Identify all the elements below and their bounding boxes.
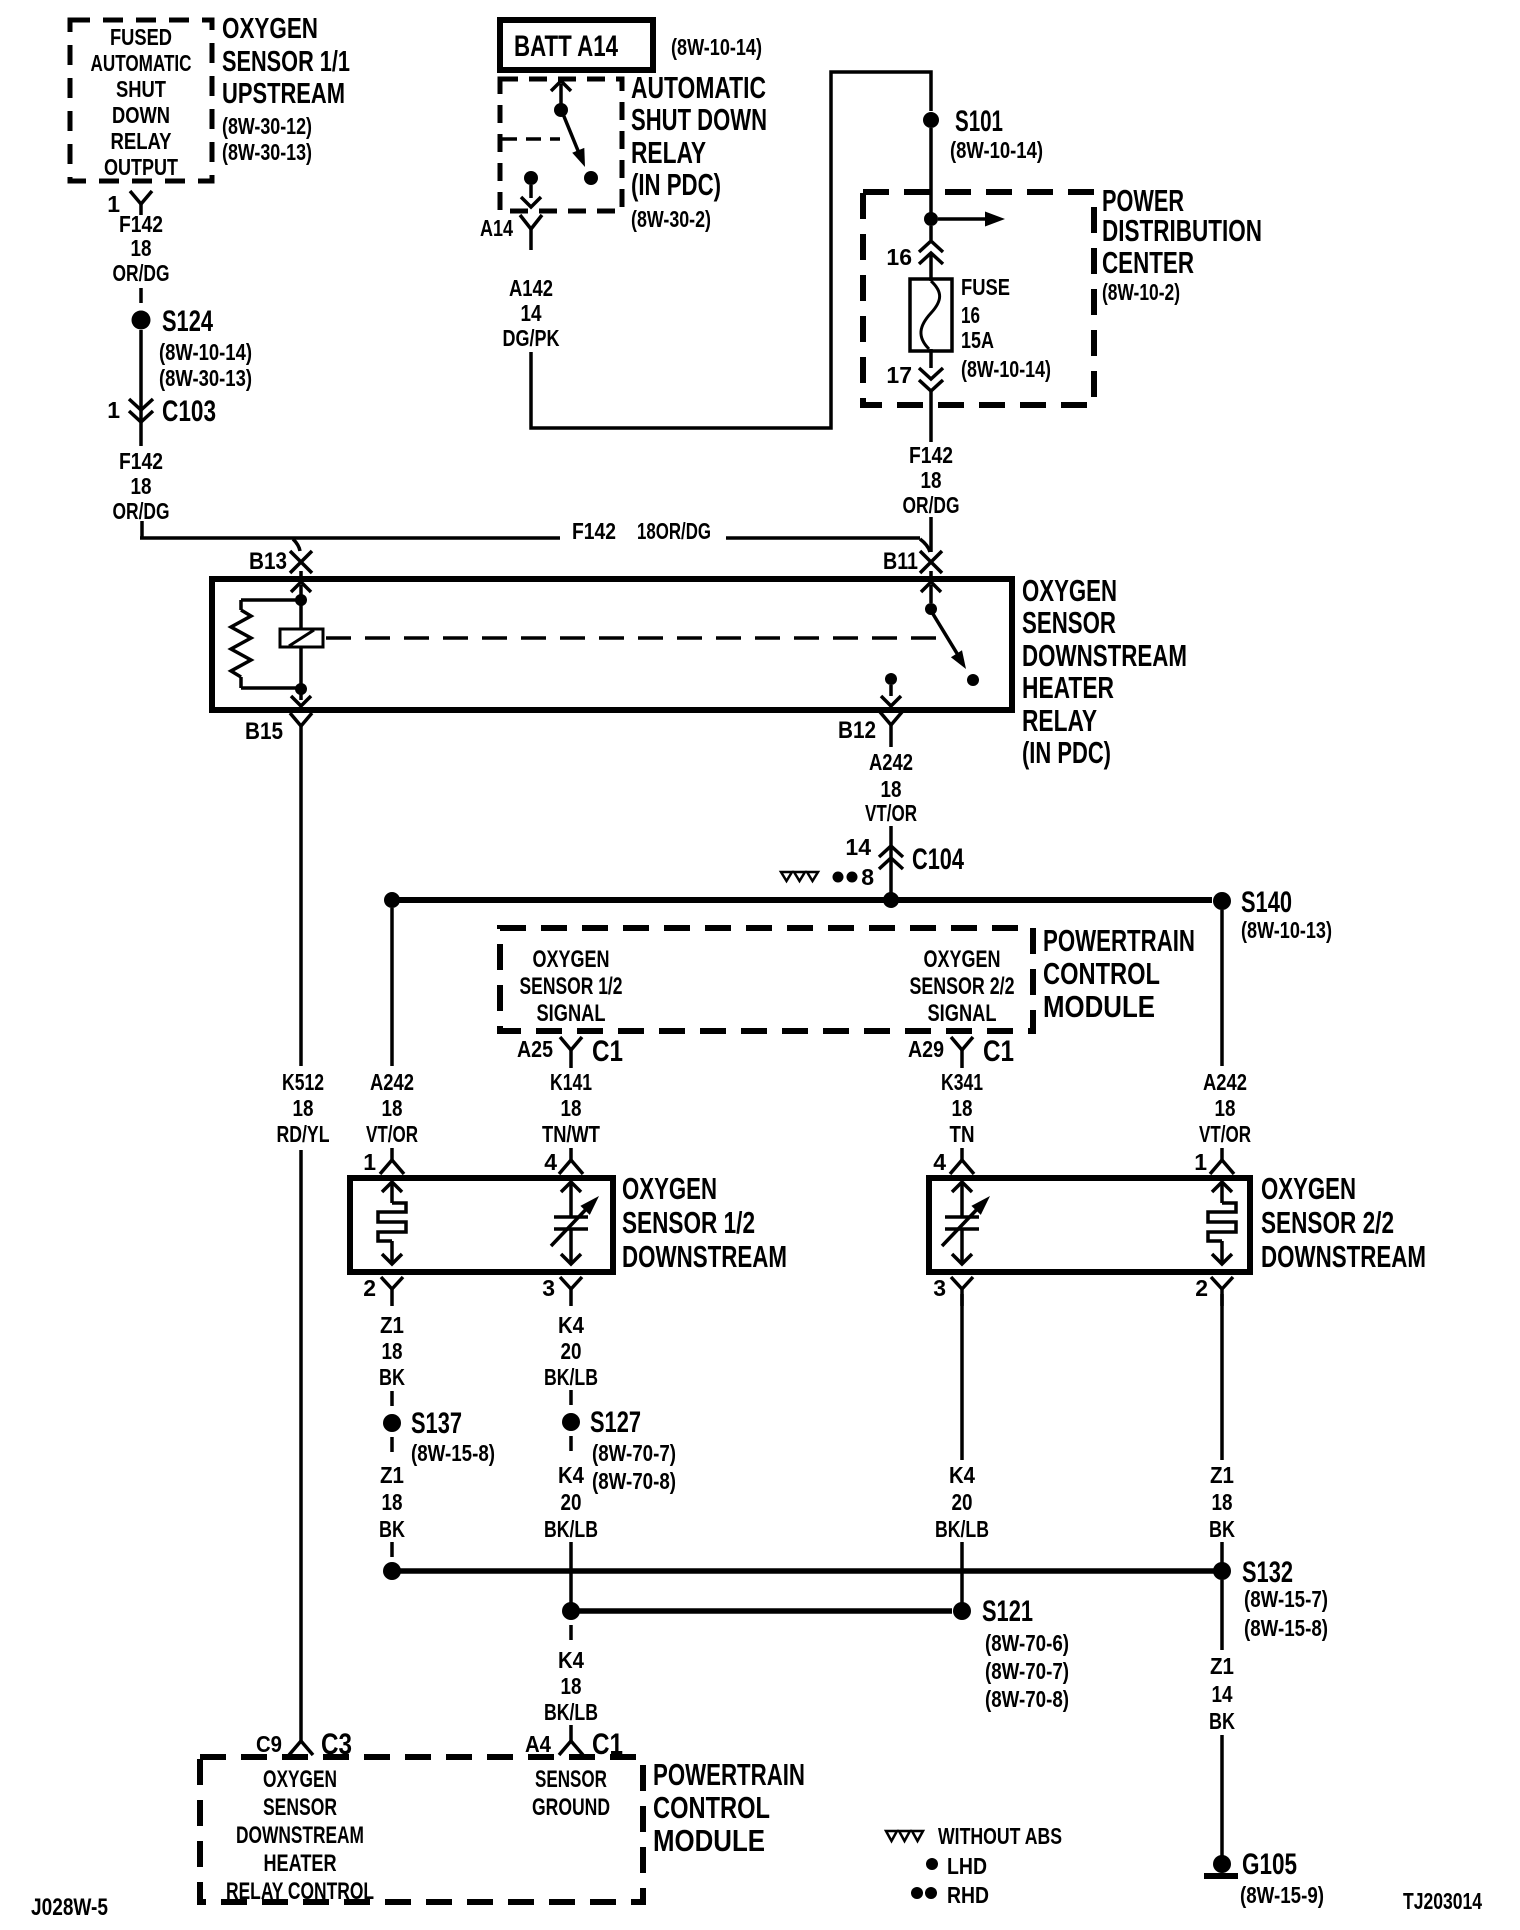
svg-text:(8W-15-7): (8W-15-7)	[1244, 1586, 1328, 1612]
svg-text:HEATER: HEATER	[264, 1850, 337, 1877]
svg-text:(IN PDC): (IN PDC)	[1022, 735, 1111, 770]
label powertrain control module (upper)	[1043, 923, 1195, 1024]
connector pin 1 into O2S 1/2	[363, 1148, 404, 1175]
bus wire S137-S132	[392, 1568, 1214, 1574]
bus wire (main splice bus)	[392, 897, 1212, 903]
wire dashed below bus2	[569, 1625, 573, 1640]
label wire Z1 18 BK (above S137)	[379, 1312, 405, 1390]
svg-text:C103: C103	[162, 395, 216, 428]
svg-text:20: 20	[952, 1489, 973, 1515]
bus junction dot left	[384, 892, 400, 908]
label wire Z1 18 BK (right)	[1209, 1462, 1235, 1542]
svg-text:A242: A242	[869, 749, 913, 775]
bus1 left terminus dot	[383, 1562, 401, 1580]
svg-text:AUTOMATIC: AUTOMATIC	[631, 70, 766, 105]
svg-text:16: 16	[961, 302, 980, 328]
svg-text:S140: S140	[1241, 886, 1292, 919]
svg-text:OR/DG: OR/DG	[113, 260, 170, 286]
svg-text:(8W-30-2): (8W-30-2)	[631, 206, 711, 232]
svg-text:BK: BK	[379, 1364, 405, 1390]
svg-text:K341: K341	[941, 1069, 983, 1095]
svg-text:(IN PDC): (IN PDC)	[631, 167, 721, 202]
svg-text:2: 2	[363, 1275, 376, 1301]
svg-text:TN/WT: TN/WT	[542, 1121, 600, 1147]
wire F142 corner to horizontal run	[140, 521, 920, 538]
relay switch pivot dot	[925, 603, 937, 615]
connector pin 3 below O2S 1/2	[542, 1275, 582, 1306]
svg-text:BK/LB: BK/LB	[544, 1364, 598, 1390]
connector B15	[245, 713, 312, 746]
relay coil pin B15 exit arrow	[291, 693, 311, 706]
svg-text:(8W-70-6): (8W-70-6)	[985, 1630, 1069, 1656]
label wire Z1 18 BK (below S137)	[379, 1462, 405, 1542]
svg-text:(8W-70-7): (8W-70-7)	[985, 1658, 1069, 1684]
relay coil bottom dot	[295, 683, 307, 695]
svg-text:RD/YL: RD/YL	[277, 1121, 330, 1147]
svg-text:MODULE: MODULE	[653, 1823, 765, 1858]
bus junction dot center (C104)	[883, 892, 899, 908]
svg-text:17: 17	[886, 362, 912, 388]
svg-text:18: 18	[1212, 1489, 1233, 1515]
label wire K4 20 BK/LB (right)	[935, 1462, 989, 1542]
svg-text:UPSTREAM: UPSTREAM	[222, 78, 345, 110]
splice S121	[953, 1595, 1069, 1712]
label wire A242 18 VT/OR (right)	[1199, 1069, 1251, 1147]
svg-text:K512: K512	[282, 1069, 324, 1095]
svg-text:C1: C1	[592, 1035, 623, 1068]
splice S132	[1213, 1556, 1328, 1641]
wire K4 through bus1 to bus2	[569, 1542, 573, 1604]
svg-text:(8W-30-13): (8W-30-13)	[159, 365, 252, 391]
ASD relay output pin dot	[524, 171, 538, 185]
svg-text:WITHOUT ABS: WITHOUT ABS	[938, 1823, 1062, 1849]
label oxygen sensor 2/2 downstream	[1261, 1171, 1426, 1274]
component box oxygen sensor 1/2 downstream	[350, 1178, 613, 1272]
splice S124	[132, 305, 253, 391]
svg-text:OR/DG: OR/DG	[113, 498, 170, 524]
legend LHD	[926, 1853, 987, 1879]
label wire K4 20 BK/LB (above S127)	[544, 1312, 598, 1390]
label wire A142 14 DG/PK	[503, 275, 560, 351]
svg-text:LHD: LHD	[947, 1853, 987, 1879]
svg-text:15A: 15A	[961, 327, 994, 353]
relay switch pin B12 exit arrow	[881, 685, 901, 706]
svg-text:A4: A4	[525, 1731, 551, 1757]
svg-text:B13: B13	[249, 548, 287, 575]
svg-text:18: 18	[293, 1095, 314, 1121]
svg-text:(8W-70-8): (8W-70-8)	[985, 1686, 1069, 1712]
svg-text:SENSOR 1/2: SENSOR 1/2	[520, 973, 623, 1000]
legend without ABS	[886, 1823, 1062, 1849]
svg-text:C1: C1	[983, 1035, 1014, 1068]
svg-text:DOWNSTREAM: DOWNSTREAM	[236, 1822, 364, 1849]
label powertrain control module (lower)	[653, 1757, 805, 1858]
svg-text:20: 20	[561, 1338, 582, 1364]
connector A14 (Y)	[480, 215, 542, 250]
svg-text:S137: S137	[411, 1407, 462, 1440]
marker without-ABS triangles at C104	[781, 872, 818, 881]
label oxygen sensor 1/2 signal	[520, 946, 623, 1027]
svg-text:(8W-70-7): (8W-70-7)	[592, 1440, 676, 1466]
sensor element O2S 1/2 (pin4-pin3)	[551, 1182, 599, 1264]
relay switch output dot B12	[885, 673, 897, 685]
svg-text:B15: B15	[245, 718, 283, 745]
svg-text:16: 16	[886, 244, 912, 270]
relay switch arm	[933, 614, 966, 669]
label wire K4 18 BK/LB (to PCM)	[544, 1647, 598, 1725]
ASD relay output contact dot	[584, 171, 598, 185]
wire dashed into bus1	[390, 1542, 394, 1557]
relay coil pin B13 entry arrow	[291, 571, 311, 600]
wire dashed above S127	[569, 1390, 573, 1405]
svg-text:B11: B11	[883, 548, 918, 575]
svg-text:18: 18	[382, 1095, 403, 1121]
svg-text:BATT A14: BATT A14	[514, 30, 618, 63]
wire K512 from B15 to C9	[299, 746, 303, 1729]
PDC junction dot with feed arrow	[924, 212, 1005, 227]
label oxygen sensor 2/2 signal	[910, 946, 1015, 1027]
svg-text:18: 18	[921, 467, 942, 493]
ASD relay common dot	[554, 103, 568, 117]
label wire K4 20 BK/LB (below S127)	[544, 1462, 598, 1542]
svg-text:A142: A142	[509, 275, 553, 301]
svg-text:20: 20	[561, 1489, 582, 1515]
svg-text:4: 4	[933, 1149, 946, 1175]
svg-text:OXYGEN: OXYGEN	[263, 1766, 337, 1793]
label wire K341 18 TN	[941, 1069, 983, 1147]
svg-text:RHD: RHD	[947, 1882, 989, 1908]
module powertrain control module box (dashed, lower)	[200, 1757, 643, 1902]
svg-text:(8W-30-13): (8W-30-13)	[222, 139, 312, 165]
splice S101	[923, 105, 1043, 163]
svg-text:DOWNSTREAM: DOWNSTREAM	[1022, 638, 1187, 673]
svg-text:J028W-5: J028W-5	[31, 1894, 108, 1921]
svg-text:BK/LB: BK/LB	[544, 1516, 598, 1542]
label wire K141 18 TN/WT	[542, 1069, 600, 1147]
svg-text:MODULE: MODULE	[1043, 989, 1155, 1024]
svg-text:CONTROL: CONTROL	[653, 1790, 770, 1825]
wire K4 right into S121	[960, 1542, 964, 1604]
resistor bottom connection	[241, 677, 301, 688]
connector B11	[883, 548, 942, 575]
relay coil element	[280, 600, 323, 688]
module powertrain control module box (dashed, upper)	[500, 928, 1033, 1031]
bus wire S127-S121	[571, 1608, 952, 1614]
svg-text:G105: G105	[1242, 1848, 1297, 1881]
label wire A242 18 VT/OR (left)	[366, 1069, 418, 1147]
svg-text:VT/OR: VT/OR	[366, 1121, 418, 1147]
svg-text:14: 14	[1212, 1681, 1233, 1707]
label wire F142 18 OR/DG under PDC	[903, 442, 960, 518]
svg-text:(8W-10-14): (8W-10-14)	[159, 339, 252, 365]
svg-text:RELAY: RELAY	[631, 135, 706, 170]
svg-text:OXYGEN: OXYGEN	[622, 1171, 717, 1206]
svg-text:18: 18	[131, 235, 152, 261]
svg-text:SENSOR 1/2: SENSOR 1/2	[622, 1205, 755, 1240]
connector pin 2 below O2S 1/2	[363, 1275, 403, 1306]
svg-text:F142: F142	[572, 518, 616, 544]
svg-text:BK/LB: BK/LB	[544, 1699, 598, 1725]
svg-text:SENSOR 2/2: SENSOR 2/2	[910, 973, 1015, 1000]
svg-text:DOWNSTREAM: DOWNSTREAM	[622, 1239, 787, 1274]
svg-text:C9: C9	[256, 1731, 282, 1757]
wire A242 into C104	[889, 826, 893, 897]
label oxygen sensor 1/2 downstream	[622, 1171, 787, 1274]
marker RHD dots and 8 at C104	[833, 864, 875, 890]
svg-text:14: 14	[845, 834, 871, 860]
svg-text:18: 18	[881, 776, 902, 802]
connector C104	[845, 834, 964, 876]
splice S140	[1213, 886, 1332, 943]
wire K141 from A25 to O2S 1/2 pin 4	[569, 1066, 573, 1068]
svg-text:C104: C104	[912, 843, 964, 876]
svg-text:K141: K141	[550, 1069, 592, 1095]
svg-text:OXYGEN: OXYGEN	[1022, 573, 1117, 608]
svg-text:A25: A25	[517, 1036, 553, 1062]
connector C103 (1)	[107, 395, 216, 446]
svg-text:BK: BK	[1209, 1516, 1235, 1542]
svg-text:RELAY CONTROL: RELAY CONTROL	[226, 1878, 374, 1905]
svg-text:OUTPUT: OUTPUT	[104, 154, 178, 180]
svg-text:SIGNAL: SIGNAL	[537, 1000, 606, 1027]
relay switch pin B11 entry arrow	[921, 571, 941, 603]
wire K4 into A4	[569, 1725, 573, 1729]
svg-text:Z1: Z1	[380, 1462, 404, 1488]
svg-text:(8W-15-8): (8W-15-8)	[411, 1440, 495, 1466]
svg-text:OXYGEN: OXYGEN	[924, 946, 1001, 973]
svg-text:CONTROL: CONTROL	[1043, 956, 1160, 991]
PDC pin 17 connector	[886, 349, 943, 442]
connector pin 3 below O2S 2/2	[933, 1275, 973, 1306]
svg-text:SIGNAL: SIGNAL	[928, 1000, 997, 1027]
svg-text:S101: S101	[955, 105, 1003, 138]
svg-text:B12: B12	[838, 717, 876, 744]
svg-text:S124: S124	[162, 305, 213, 338]
svg-text:18: 18	[561, 1095, 582, 1121]
svg-text:OXYGEN: OXYGEN	[1261, 1171, 1356, 1206]
splice S137	[383, 1407, 495, 1466]
box fused automatic shut down relay output (dashed)	[70, 20, 212, 181]
svg-text:4: 4	[544, 1149, 557, 1175]
svg-text:2: 2	[1195, 1275, 1208, 1301]
svg-text:18: 18	[952, 1095, 973, 1121]
svg-text:HEATER: HEATER	[1022, 670, 1114, 705]
svg-text:K4: K4	[558, 1647, 584, 1673]
wire Z1 pin2 down	[1220, 1294, 1224, 1460]
connector pin 1 (Y) below ASD output box	[107, 191, 152, 217]
svg-text:S132: S132	[1242, 1556, 1293, 1589]
svg-text:POWERTRAIN: POWERTRAIN	[653, 1757, 805, 1792]
svg-text:SHUT: SHUT	[116, 76, 166, 102]
svg-text:8: 8	[861, 864, 874, 890]
svg-text:VT/OR: VT/OR	[865, 800, 917, 826]
svg-text:3: 3	[933, 1275, 946, 1301]
svg-text:Z1: Z1	[380, 1312, 404, 1338]
svg-text:S121: S121	[982, 1595, 1033, 1628]
wire dashed below S127	[569, 1436, 573, 1451]
svg-text:SHUT DOWN: SHUT DOWN	[631, 102, 767, 137]
ground G105	[1204, 1848, 1324, 1908]
svg-text:K4: K4	[558, 1462, 584, 1488]
PDC pin 16 connector	[886, 226, 943, 281]
relay box oxygen sensor downstream heater relay	[212, 579, 1012, 710]
svg-text:BK/LB: BK/LB	[935, 1516, 989, 1542]
svg-text:FUSED: FUSED	[110, 24, 172, 50]
svg-text:F142: F142	[909, 442, 953, 468]
svg-text:TN: TN	[950, 1121, 975, 1147]
component box oxygen sensor 2/2 downstream	[929, 1178, 1250, 1272]
svg-text:(8W-15-8): (8W-15-8)	[1244, 1615, 1328, 1641]
heater element O2S 1/2 (pin1-pin2)	[378, 1182, 406, 1264]
svg-text:Z1: Z1	[1210, 1653, 1234, 1679]
wire S101 into PDC	[929, 128, 933, 213]
label oxygen sensor downstream heater relay control	[226, 1766, 374, 1905]
svg-text:18: 18	[382, 1338, 403, 1364]
svg-text:OXYGEN: OXYGEN	[222, 13, 318, 45]
svg-text:F142: F142	[119, 211, 163, 237]
svg-text:TJ203014: TJ203014	[1403, 1888, 1482, 1914]
wire K341 pin3 down	[960, 1294, 964, 1460]
svg-text:SENSOR: SENSOR	[1022, 605, 1116, 640]
connector pin 1 into O2S 2/2	[1194, 1148, 1234, 1175]
ASD relay coil dashed stub	[502, 137, 560, 141]
ASD relay upper contact arrow	[551, 81, 571, 104]
svg-text:SENSOR 1/1: SENSOR 1/1	[222, 46, 350, 78]
fuse 16 15A	[910, 279, 952, 351]
label wire A242 18 VT/OR (below B12)	[865, 749, 917, 826]
label fuse 16 15A	[961, 274, 1051, 382]
legend RHD	[911, 1882, 989, 1908]
svg-text:RELAY: RELAY	[1022, 703, 1097, 738]
svg-text:(8W-10-13): (8W-10-13)	[1241, 917, 1332, 943]
wire dashed above S137	[390, 1391, 394, 1406]
power distribution center box (dashed)	[863, 192, 1094, 405]
svg-text:A242: A242	[1203, 1069, 1247, 1095]
svg-text:(8W-10-14): (8W-10-14)	[671, 34, 762, 60]
ASD relay output pin arrow	[521, 185, 541, 207]
svg-text:SENSOR 2/2: SENSOR 2/2	[1261, 1205, 1394, 1240]
resistor (relay coil suppression)	[231, 610, 251, 677]
svg-text:18: 18	[131, 473, 152, 499]
wire Z1 from S132 to G105	[1220, 1580, 1224, 1856]
svg-text:18OR/DG: 18OR/DG	[637, 518, 711, 544]
svg-text:(8W-15-9): (8W-15-9)	[1240, 1882, 1324, 1908]
svg-text:OR/DG: OR/DG	[903, 492, 960, 518]
wire A242 from S140 to O2S 2/2 pin 1	[1220, 910, 1224, 1066]
relay ASD box (dashed, in PDC)	[500, 79, 622, 211]
svg-text:AUTOMATIC: AUTOMATIC	[91, 50, 192, 76]
svg-text:BK: BK	[379, 1516, 405, 1542]
label wire Z1 14 BK (to ground)	[1209, 1653, 1235, 1734]
connector A25 C1	[517, 1035, 623, 1068]
svg-text:1: 1	[363, 1149, 376, 1175]
svg-text:DISTRIBUTION: DISTRIBUTION	[1102, 213, 1262, 248]
svg-text:DG/PK: DG/PK	[503, 325, 560, 351]
svg-text:VT/OR: VT/OR	[1199, 1121, 1251, 1147]
relay switch contact dot	[967, 674, 979, 686]
svg-text:FUSE: FUSE	[961, 274, 1010, 300]
connector C9 C3	[256, 1728, 352, 1761]
svg-text:CENTER: CENTER	[1102, 245, 1194, 280]
sheet number TJ203014	[1403, 1888, 1482, 1914]
heater element O2S 2/2 (pin1-pin2)	[1208, 1182, 1236, 1264]
svg-text:(8W-10-2): (8W-10-2)	[1102, 279, 1180, 305]
svg-text:A14: A14	[480, 215, 513, 241]
svg-text:18: 18	[382, 1489, 403, 1515]
label oxygen sensor 1/1 upstream	[222, 13, 350, 165]
connector A29 C1	[908, 1035, 1014, 1068]
wire S124 to C103	[139, 330, 143, 398]
svg-text:3: 3	[542, 1275, 555, 1301]
ASD relay switch arm	[563, 114, 585, 167]
svg-text:A29: A29	[908, 1036, 944, 1062]
connector A4 C1	[525, 1728, 623, 1761]
label automatic shut down relay	[631, 70, 767, 232]
svg-text:F142: F142	[119, 448, 163, 474]
svg-text:(8W-70-8): (8W-70-8)	[592, 1468, 676, 1494]
wire dashed segment above S124	[139, 288, 143, 303]
svg-text:S127: S127	[590, 1406, 641, 1439]
svg-text:1: 1	[107, 397, 120, 423]
sensor element O2S 2/2 (pin4-pin3)	[942, 1182, 990, 1264]
wire dashed below S137	[390, 1437, 394, 1452]
wire F142 into B11	[920, 517, 931, 552]
wire A242 from bus to O2S 1/2 pin 1	[390, 908, 394, 1066]
splice S127	[562, 1406, 676, 1494]
power feed box BATT A14	[500, 20, 653, 70]
label fused ASD relay output text	[91, 24, 192, 180]
svg-text:SENSOR: SENSOR	[535, 1766, 607, 1793]
svg-text:(8W-30-12): (8W-30-12)	[222, 113, 312, 139]
svg-text:Z1: Z1	[1210, 1462, 1234, 1488]
relay coil dashed link to switch	[326, 636, 944, 640]
svg-text:GROUND: GROUND	[532, 1794, 610, 1821]
connector B12	[838, 712, 902, 747]
bus2 left terminus dot	[562, 1602, 580, 1620]
label (8W-10-14) beside BATT A14	[671, 34, 762, 60]
label power distribution center	[1102, 183, 1262, 305]
wire A142 routing to S101	[531, 72, 931, 428]
svg-text:18: 18	[1215, 1095, 1236, 1121]
label wire F142 18 OR/DG (lower)	[113, 448, 170, 524]
svg-text:(8W-10-14): (8W-10-14)	[950, 137, 1043, 163]
svg-text:1: 1	[1194, 1149, 1207, 1175]
svg-text:18: 18	[561, 1673, 582, 1699]
relay coil top dot	[295, 594, 307, 606]
connector pin 2 below O2S 2/2	[1195, 1275, 1233, 1306]
svg-text:DOWNSTREAM: DOWNSTREAM	[1261, 1239, 1426, 1274]
label oxygen sensor downstream heater relay	[1022, 573, 1187, 770]
label F142 18OR/DG on horizontal wire	[572, 518, 711, 544]
svg-text:OXYGEN: OXYGEN	[533, 946, 610, 973]
connector pin 4 into O2S 2/2	[933, 1148, 974, 1175]
svg-text:K4: K4	[558, 1312, 584, 1338]
label wire K512 18 RD/YL	[277, 1069, 330, 1147]
relay coil branch to resistor	[241, 600, 301, 610]
svg-text:K4: K4	[949, 1462, 975, 1488]
wire K341 from A29 to O2S 2/2 pin 4	[960, 1066, 964, 1068]
svg-text:DOWN: DOWN	[112, 102, 170, 128]
connector B13	[249, 539, 312, 575]
svg-text:14: 14	[521, 300, 542, 326]
connector pin 4 into O2S 1/2	[544, 1148, 583, 1175]
svg-text:BK: BK	[1209, 1708, 1235, 1734]
label wire F142 18 OR/DG (upper)	[113, 211, 170, 286]
label sensor ground	[532, 1766, 610, 1821]
svg-text:A242: A242	[370, 1069, 414, 1095]
svg-text:(8W-10-14): (8W-10-14)	[961, 356, 1051, 382]
svg-text:SENSOR: SENSOR	[263, 1794, 337, 1821]
